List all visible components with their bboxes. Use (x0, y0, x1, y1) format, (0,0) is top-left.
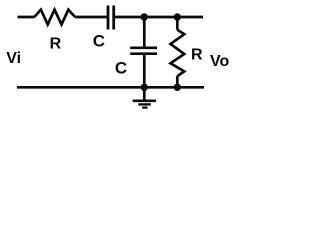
resistor R2 (shunt R, vertical zigzag) top stub (176, 17, 179, 30)
wire: between series resistor and series capacitor (75, 16, 107, 19)
capacitor C2 (shunt C) top plate (130, 46, 157, 49)
svg-text:R: R (191, 47, 203, 64)
svg-text:Vi: Vi (6, 50, 21, 67)
wire: from shunt capacitor bottom plate down to ground rail (143, 54, 146, 88)
wire: from node A down to shunt capacitor top plate (143, 17, 146, 48)
capacitor C1 (series C) right plate (112, 6, 115, 30)
node junction dot D (bottom of shunt R) (174, 84, 181, 91)
svg-text:C: C (93, 31, 105, 50)
svg-text:Vo: Vo (210, 53, 229, 70)
capacitor C2 (shunt C) bottom plate (130, 52, 157, 55)
svg-text:C: C (115, 58, 127, 77)
wire: bottom ground rail (17, 86, 204, 89)
ground symbol bar 3 (smallest) (142, 106, 147, 108)
node junction dot B (top of shunt R) (174, 13, 181, 20)
ground symbol bar 1 (widest) (133, 99, 156, 102)
ground stub wire (143, 87, 146, 99)
wire: input lead from Vi to series resistor (18, 16, 35, 19)
resistor R1 (series R, horizontal zigzag) (34, 10, 75, 25)
resistor R2 (shunt R) zigzag body (171, 30, 185, 76)
node junction dot C (bottom of shunt C / ground tap) (141, 84, 148, 91)
capacitor C1 (series C) left plate (107, 6, 110, 30)
resistor R2 (shunt R) bottom stub (176, 76, 179, 88)
ground symbol bar 2 (middle) (138, 103, 151, 105)
wire: top rail from series capacitor to output (115, 16, 203, 19)
svg-text:R: R (50, 36, 62, 53)
node junction dot A (top of shunt C) (141, 13, 148, 20)
